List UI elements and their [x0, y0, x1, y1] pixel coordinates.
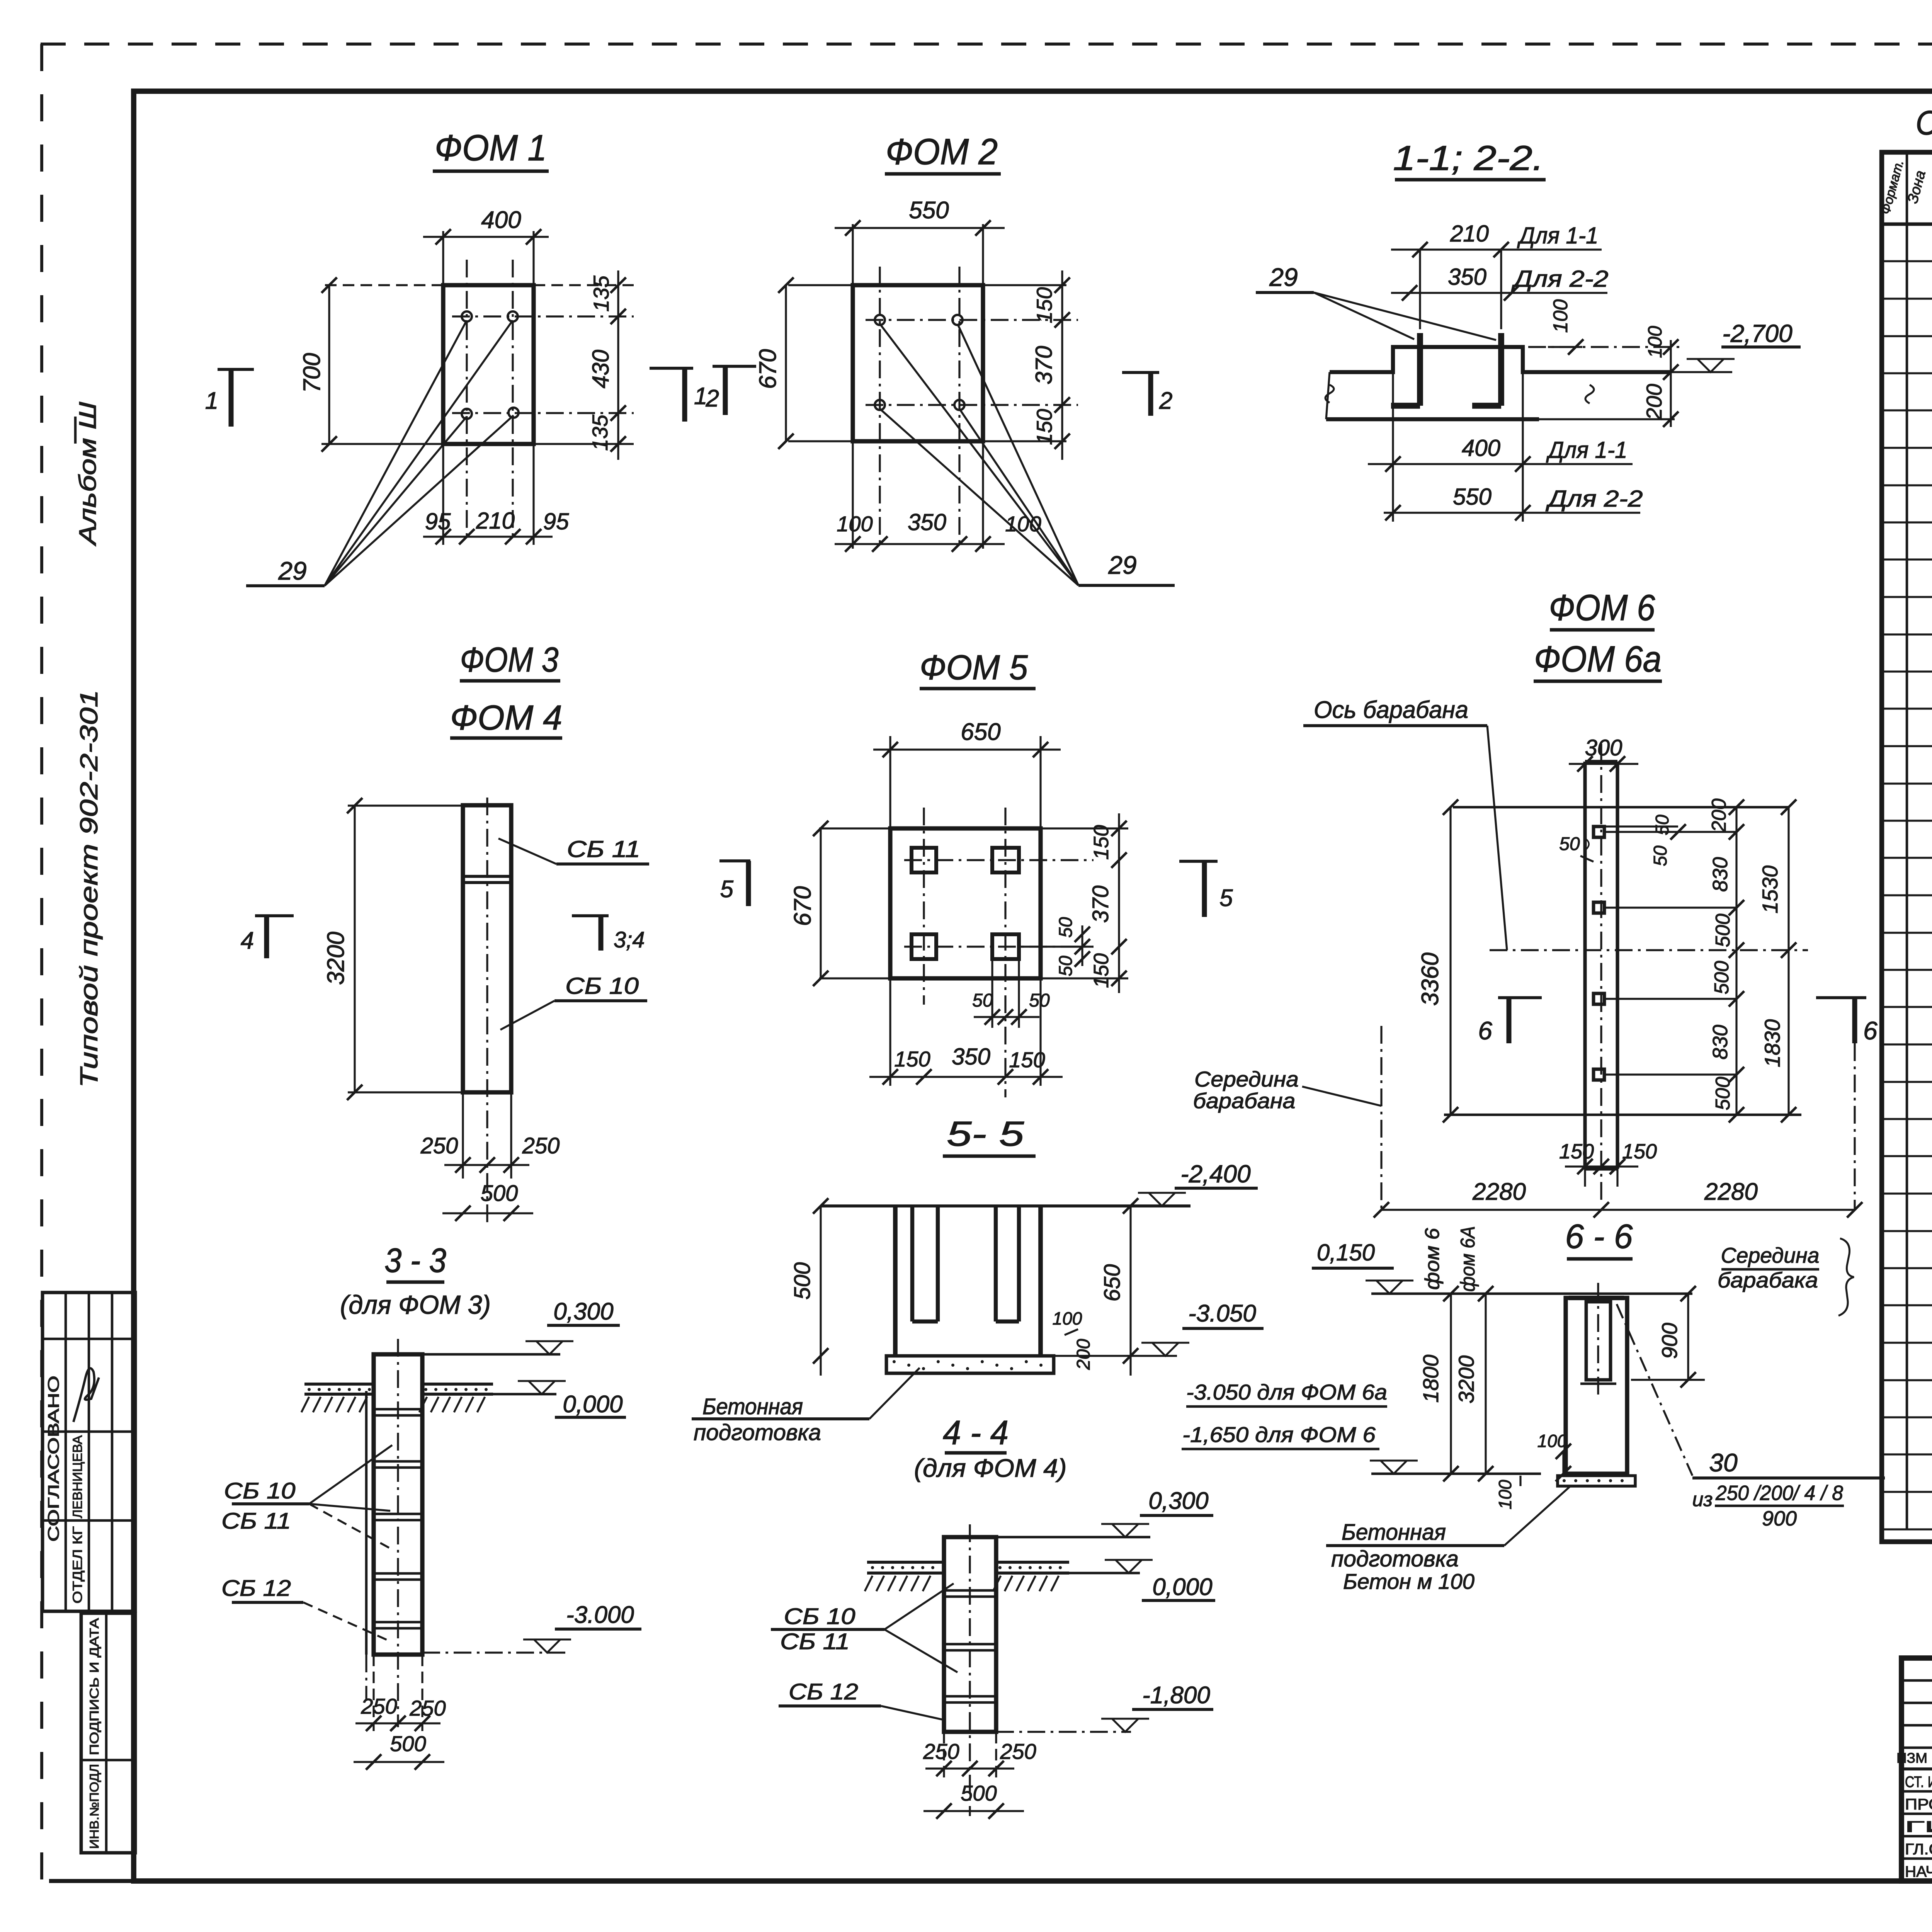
stamp signature scribble — [73, 1368, 99, 1422]
svg-text:барабака: барабака — [1718, 1268, 1818, 1292]
section 3-3 leaders to blocks — [309, 1445, 392, 1504]
svg-text:5- 5: 5- 5 — [947, 1115, 1024, 1153]
svg-text:50: 50 — [972, 990, 993, 1011]
svg-text:210: 210 — [1450, 221, 1489, 247]
svg-text:500: 500 — [961, 1781, 997, 1805]
section 3-3 bottom dims 250/250 — [372, 1655, 374, 1731]
svg-text:-2,400: -2,400 — [1180, 1160, 1251, 1188]
svg-text:Середина: Середина — [1194, 1067, 1299, 1091]
ФОМ 1 dimension 400 (top) — [423, 236, 549, 238]
svg-text:500: 500 — [1711, 961, 1733, 995]
svg-text:0,300: 0,300 — [553, 1298, 613, 1325]
ФОМ 3/4 column outline — [463, 805, 511, 1092]
section 3-3 block joints — [374, 1408, 422, 1411]
ФОМ 6 strip centre axis — [1600, 744, 1602, 1200]
svg-text:ИЗМ: ИЗМ — [1896, 1750, 1927, 1766]
section 1-1/2-2 anchor bolt right — [1498, 333, 1504, 406]
svg-text:150: 150 — [1622, 1140, 1657, 1163]
svg-text:ПРОВЕР: ПРОВЕР — [1905, 1796, 1932, 1813]
svg-text:ФОМ 6: ФОМ 6 — [1549, 587, 1655, 628]
svg-text:350: 350 — [1448, 264, 1486, 290]
ФОМ 5 anchor pockets — [912, 848, 936, 872]
svg-text:ФОМ 2: ФОМ 2 — [886, 131, 998, 172]
svg-text:СБ 10: СБ 10 — [565, 973, 639, 999]
svg-text:СБ 10: СБ 10 — [224, 1478, 296, 1503]
ФОМ 6 anchor tie lines to right dim — [1604, 831, 1736, 833]
svg-text:0,000: 0,000 — [1152, 1574, 1212, 1600]
svg-text:830: 830 — [1709, 1025, 1732, 1060]
section 3-3 ground lines — [304, 1383, 374, 1386]
stamp block СОГЛАСОВАНО: frame — [43, 1293, 135, 1611]
section 3-3 trench edge line — [365, 1391, 368, 1655]
svg-text:400: 400 — [1462, 435, 1500, 461]
section mark 6 (left) — [1498, 996, 1542, 999]
svg-text:Для 1-1: Для 1-1 — [1517, 223, 1599, 248]
stamp block СОГЛАСОВАНО: inner verticals — [65, 1293, 67, 1611]
section 3-3 elevation 0,300 — [422, 1353, 560, 1356]
svg-text:900: 900 — [1762, 1507, 1797, 1530]
section mark 2 (right of ФОМ 2) — [1122, 371, 1159, 374]
svg-text:100: 100 — [1537, 1431, 1567, 1451]
svg-text:210: 210 — [476, 508, 515, 534]
drum axis vertical (right) — [1854, 1043, 1855, 1210]
ФОМ 6 bottom dims 150/150 — [1584, 1169, 1586, 1190]
drum axis vertical (left, середина барабана) — [1380, 1026, 1382, 1210]
ФОМ 6 dimension 3360 (left) — [1449, 807, 1451, 1115]
svg-text:100: 100 — [1549, 299, 1572, 333]
section 6-6 dim line for ФОМ 6 (1800) — [1450, 1294, 1452, 1474]
section 5-5 pocket walls — [910, 1206, 914, 1321]
svg-text:250: 250 — [420, 1133, 458, 1158]
svg-text:фом 6: фом 6 — [1421, 1228, 1444, 1290]
ФОМ 5 pocket axes vertical — [923, 808, 925, 1005]
svg-text:150: 150 — [1032, 409, 1056, 445]
ФОМ 5 pocket axes horizontal — [904, 859, 1094, 861]
svg-text:подготовка: подготовка — [1331, 1546, 1459, 1571]
ФОМ 6 top anchor double line with 50/50 — [1604, 825, 1678, 827]
svg-text:(для ФОМ 4): (для ФОМ 4) — [914, 1454, 1067, 1482]
section 1-1/2-2 break marks — [1325, 385, 1334, 403]
outer dashed border left — [40, 44, 43, 1881]
ФОМ 6 dimension 300 (top) — [1569, 763, 1638, 765]
section mark 1 (left of ФОМ 1) — [218, 368, 254, 371]
section 6-6 dimension 900 (right) — [1631, 1379, 1705, 1381]
svg-text:1800: 1800 — [1418, 1355, 1443, 1403]
svg-text:250: 250 — [361, 1694, 397, 1718]
ФОМ 6 right dim chain 1530/1830 — [1787, 807, 1789, 1115]
svg-text:200: 200 — [1642, 384, 1666, 420]
svg-text:НАЧ ОТД.: НАЧ ОТД. — [1905, 1863, 1932, 1880]
ФОМ 6 dimension 2280/2280 — [1381, 1209, 1855, 1211]
svg-text:370: 370 — [1031, 346, 1057, 384]
svg-text:150: 150 — [894, 1047, 930, 1071]
ФОМ 6 right dim chain 200/830/500/500/830/500 — [1735, 807, 1737, 1115]
svg-text:550: 550 — [909, 197, 949, 224]
ФОМ 1 anchor bolts — [462, 311, 472, 321]
svg-text:3200: 3200 — [323, 932, 349, 985]
ФОМ 1 dimensions 95/210/95 (bottom) — [423, 536, 553, 537]
svg-text:ЛЕВНИЦЕВА: ЛЕВНИЦЕВА — [70, 1435, 85, 1518]
svg-text:СБ 10: СБ 10 — [784, 1604, 855, 1629]
svg-text:1-1; 2-2.: 1-1; 2-2. — [1393, 139, 1544, 178]
section 6-6 column outline — [1566, 1298, 1627, 1474]
ФОМ 2 dimension 550 (top) — [835, 227, 1005, 229]
svg-text:135: 135 — [589, 275, 613, 311]
svg-text:2: 2 — [706, 385, 719, 412]
ФОМ 6 drum axis (horizontal) — [1490, 949, 1808, 951]
svg-text:250: 250 — [409, 1696, 446, 1720]
section 1-1/2-2 dimension 400 Для 1-1 (bottom) — [1392, 372, 1394, 473]
section 5-5 dimension 500 (left) — [820, 1206, 821, 1376]
svg-text:Для 2-2: Для 2-2 — [1511, 266, 1609, 292]
svg-text:300: 300 — [1585, 735, 1622, 760]
section 4-4 bottom dims 250/250 — [943, 1732, 945, 1777]
section 6-6 bottom elevation line and triangle — [1370, 1461, 1418, 1474]
section mark 3;4 — [572, 914, 609, 917]
svg-text:50: 50 — [1029, 990, 1050, 1011]
svg-text:-1,650 для ФОМ 6: -1,650 для ФОМ 6 — [1182, 1422, 1376, 1447]
svg-text:650: 650 — [961, 719, 1000, 745]
svg-text:СТ. ИНЖЕН: СТ. ИНЖЕН — [1905, 1774, 1932, 1791]
svg-text:650: 650 — [1100, 1264, 1125, 1302]
svg-text:СБ 11: СБ 11 — [221, 1509, 291, 1534]
ФОМ 5 dimension 650 (top) — [873, 748, 1061, 750]
svg-text:150: 150 — [1090, 825, 1113, 860]
svg-text:Бетонная: Бетонная — [702, 1394, 803, 1419]
section 4-4 ground hatching — [865, 1576, 872, 1591]
svg-text:(для ФОМ 3): (для ФОМ 3) — [340, 1290, 491, 1320]
section mark 5 (left mark for ФОМ 5) — [719, 859, 750, 862]
ФОМ 6 pit top edge — [1453, 806, 1789, 809]
title block left small rows — [1901, 1679, 1932, 1682]
svg-text:Ось барабана: Ось барабана — [1314, 697, 1468, 723]
svg-text:Спецификация элементов монол: Спецификация элементов монолитной констр… — [1916, 104, 1932, 142]
svg-text:150: 150 — [1032, 287, 1056, 323]
svg-text:100: 100 — [837, 512, 872, 536]
ФОМ 5 small dims 50/50 (below lower right pocket) — [991, 959, 993, 1028]
svg-text:СБ 11: СБ 11 — [567, 836, 640, 862]
svg-text:Середина: Середина — [1721, 1243, 1820, 1267]
section 6-6 pocket centre axis — [1597, 1283, 1599, 1399]
svg-text:барабана: барабана — [1193, 1088, 1296, 1113]
svg-text:150: 150 — [1559, 1140, 1594, 1163]
section mark 4 (left) — [255, 914, 294, 917]
spec table header row line — [1882, 222, 1932, 226]
svg-text:830: 830 — [1709, 857, 1732, 892]
svg-text:3;4: 3;4 — [614, 927, 645, 952]
section 6-6 top elevation line — [1371, 1293, 1692, 1295]
svg-text:50: 50 — [1056, 917, 1076, 938]
svg-text:95: 95 — [543, 509, 569, 534]
section 4-4 elevation -1,800 — [996, 1731, 1131, 1733]
svg-text:СБ 11: СБ 11 — [780, 1629, 850, 1654]
section mark 6 (right) — [1816, 996, 1866, 999]
svg-text:550: 550 — [1453, 484, 1492, 510]
svg-text:250: 250 — [1000, 1739, 1036, 1764]
ФОМ 1 extension lines — [442, 231, 444, 285]
svg-text:100: 100 — [1053, 1308, 1082, 1328]
stamp block ИНВ/ПОДПИСЬ: inner lines — [105, 1613, 108, 1853]
svg-text:-3.000: -3.000 — [566, 1602, 634, 1628]
svg-text:ФОМ 5: ФОМ 5 — [920, 648, 1028, 687]
ФОМ 1 dimension 700 (left) — [328, 285, 330, 444]
svg-text:2: 2 — [1159, 388, 1172, 414]
ФОМ 2 dimensions 150/370/150 (right) — [1061, 270, 1063, 460]
ФОМ 3/4 bottom dim 500 — [442, 1212, 533, 1214]
svg-text:400: 400 — [481, 207, 521, 233]
svg-text:430: 430 — [588, 350, 614, 388]
svg-text:6: 6 — [1478, 1016, 1492, 1045]
svg-text:350: 350 — [908, 509, 946, 535]
svg-text:ФОМ 1: ФОМ 1 — [435, 128, 547, 168]
section 1-1/2-2 bottom edge — [1326, 417, 1539, 421]
spec table column lines — [1906, 152, 1908, 1529]
ФОМ 3/4 bottom dims 250/250 — [462, 1092, 464, 1179]
ФОМ 1 bolt axis vertical lines — [466, 260, 468, 541]
svg-text:ГЛ.СПЕЦ: ГЛ.СПЕЦ — [1905, 1841, 1932, 1858]
section 6-6 top plate marks — [1569, 1296, 1624, 1300]
ФОМ 5 foundation outline — [890, 828, 1041, 978]
svg-text:-1,800: -1,800 — [1142, 1682, 1210, 1709]
ФОМ 2 extension lines — [852, 224, 854, 285]
section marks 1 and 2 (between ФОМ 1 and ФОМ 2) — [650, 367, 693, 370]
spec table outer frame — [1882, 152, 1932, 1542]
svg-text:250 /200/ 4 / 8: 250 /200/ 4 / 8 — [1715, 1481, 1843, 1505]
svg-text:670: 670 — [755, 349, 781, 389]
svg-text:Типовой проект 902-2-301: Типовой проект 902-2-301 — [75, 690, 103, 1088]
svg-text:3200: 3200 — [1454, 1355, 1478, 1404]
svg-text:250: 250 — [522, 1133, 560, 1158]
section 4-4 bottom dim 500 — [923, 1810, 1024, 1812]
section 6-6 dim line for ФОМ 6а (3200) — [1485, 1294, 1486, 1474]
svg-text:-2,700: -2,700 — [1722, 320, 1793, 347]
ФОМ 1 foundation outline — [443, 285, 534, 444]
section 4-4 elevation 0,300 — [996, 1536, 1150, 1539]
section 1-1/2-2 dimension 550 Для 2-2 (bottom) — [1384, 512, 1640, 514]
svg-text:100: 100 — [1644, 326, 1666, 358]
section 3-3 elevation 0,000 — [493, 1393, 556, 1396]
section 5-5 base slab (бетонная подготовка) — [886, 1356, 1054, 1373]
svg-text:0,150: 0,150 — [1317, 1240, 1375, 1265]
title block signature row lines — [1901, 1790, 1932, 1793]
svg-text:СБ 12: СБ 12 — [221, 1576, 291, 1601]
svg-text:5: 5 — [1219, 885, 1233, 912]
spec table row lines — [1882, 260, 1932, 262]
svg-text:100: 100 — [1495, 1480, 1515, 1509]
svg-text:ФОМ 3: ФОМ 3 — [460, 641, 559, 679]
svg-text:150: 150 — [1009, 1048, 1045, 1072]
stamp block СОГЛАСОВАНО: inner horizontals — [43, 1338, 135, 1340]
svg-text:0,300: 0,300 — [1148, 1488, 1208, 1514]
svg-text:Бетон м 100: Бетон м 100 — [1343, 1569, 1475, 1594]
ФОМ 5 extension lines — [889, 736, 891, 828]
svg-text:ГИП: ГИП — [1905, 1818, 1932, 1835]
svg-text:500: 500 — [1712, 914, 1734, 947]
svg-text:670: 670 — [789, 886, 816, 926]
section 6-6 base slab — [1558, 1476, 1635, 1486]
svg-text:1530: 1530 — [1758, 866, 1782, 914]
ФОМ 6 strip foundation outline — [1583, 762, 1587, 1169]
svg-text:29: 29 — [1108, 551, 1136, 579]
svg-text:250: 250 — [923, 1739, 959, 1764]
ФОМ 2 foundation outline — [853, 285, 983, 441]
svg-text:50: 50 — [1056, 956, 1076, 976]
svg-text:2280: 2280 — [1704, 1179, 1758, 1205]
section 1-1/2-2 dimension 210 Для 1-1 — [1391, 248, 1602, 250]
ФОМ 5 dimensions 150/370/150 (right) — [1118, 813, 1120, 993]
section 5-5 outer walls — [893, 1206, 898, 1356]
ФОМ 3/4 block joint lines — [463, 875, 511, 878]
svg-text:500: 500 — [390, 1731, 426, 1756]
svg-text:4: 4 — [241, 927, 254, 954]
title block header row line — [1901, 1767, 1932, 1770]
svg-text:ФОМ 4: ФОМ 4 — [450, 699, 562, 737]
svg-text:ИНВ.№ПОДЛ: ИНВ.№ПОДЛ — [87, 1764, 101, 1849]
svg-text:1: 1 — [205, 388, 218, 414]
svg-text:Для 2-2: Для 2-2 — [1546, 486, 1643, 512]
svg-text:-3.050 для ФОМ 6а: -3.050 для ФОМ 6а — [1186, 1380, 1387, 1404]
ФОМ 2 bolt axis horizontal lines — [866, 319, 1078, 321]
svg-text:370: 370 — [1088, 886, 1113, 923]
svg-text:6: 6 — [1863, 1016, 1878, 1045]
section 5-5 dimension 650 (right) — [1129, 1206, 1131, 1376]
ФОМ 3/4 centre axis — [486, 798, 488, 1223]
svg-text:подготовка: подготовка — [694, 1420, 821, 1445]
svg-text:-3.050: -3.050 — [1188, 1300, 1256, 1327]
svg-text:900: 900 — [1657, 1323, 1682, 1359]
svg-text:50: 50 — [1559, 834, 1580, 854]
svg-text:6 - 6: 6 - 6 — [1565, 1217, 1633, 1255]
bottom trim line — [49, 1879, 134, 1883]
svg-text:4 - 4: 4 - 4 — [943, 1413, 1009, 1452]
leader from Середина барабана label to drum axis — [1302, 1087, 1381, 1106]
stamp block ИНВ/ПОДПИСЬ: frame — [81, 1613, 135, 1853]
svg-text:3360: 3360 — [1417, 952, 1444, 1006]
title block outer frame — [1901, 1658, 1932, 1881]
svg-text:0,000: 0,000 — [563, 1391, 622, 1418]
section 3-3 column outline — [374, 1354, 422, 1655]
section 1-1/2-2 right side dims 100 / 200 — [1528, 346, 1685, 348]
svg-text:фом 6А: фом 6А — [1457, 1226, 1479, 1292]
svg-text:700: 700 — [299, 353, 325, 393]
svg-text:СБ 12: СБ 12 — [789, 1679, 858, 1704]
svg-text:200: 200 — [1708, 799, 1730, 833]
section 1-1/2-2 dimension 350 Для 2-2 — [1391, 292, 1607, 294]
section mark 5 (right) — [1179, 860, 1218, 863]
svg-text:29: 29 — [1269, 263, 1298, 291]
svg-text:50: 50 — [1652, 815, 1673, 835]
svg-text:Бетонная: Бетонная — [1342, 1520, 1446, 1545]
svg-text:150: 150 — [1090, 953, 1113, 988]
svg-text:95: 95 — [425, 509, 451, 534]
ФОМ 5 bottom dims 150/350/150 — [869, 1076, 1063, 1078]
section 1-1/2-2 dimension 100 (bolt protrusion) — [1548, 346, 1582, 348]
section 5-5 pocket bottoms — [912, 1320, 938, 1323]
svg-text:500: 500 — [790, 1262, 815, 1300]
svg-text:3 - 3: 3 - 3 — [384, 1241, 446, 1279]
ФОМ 6 anchor squares — [1594, 827, 1604, 837]
svg-text:350: 350 — [952, 1044, 990, 1070]
section 3-3 elevation -3.000 — [422, 1651, 568, 1653]
section 3-3 bottom dim 500 — [354, 1761, 444, 1763]
svg-text:2280: 2280 — [1472, 1179, 1526, 1205]
ФОМ 5 small dims 50/50 (right of lower pocket) — [1019, 946, 1094, 947]
section 4-4 elevation 0,000 — [1069, 1572, 1140, 1575]
section 6-6 anchor pocket — [1586, 1302, 1611, 1380]
ФОМ 5 dimension 670 (left) — [820, 828, 821, 978]
svg-text:135: 135 — [588, 414, 612, 451]
svg-text:1: 1 — [694, 383, 707, 410]
svg-text:Для 1-1: Для 1-1 — [1546, 437, 1628, 463]
svg-text:5: 5 — [720, 876, 734, 903]
section 4-4 block joints — [944, 1589, 996, 1592]
section 6-6 mesh leader 30 — [1617, 1304, 1692, 1476]
ФОМ 1 bolt axis horizontal lines — [452, 315, 634, 317]
section 4-4 ground lines — [867, 1561, 944, 1564]
svg-text:50: 50 — [1650, 845, 1671, 866]
section 4-4 leaders — [884, 1583, 954, 1629]
ФОМ 1 dimensions 135/430/135 (right) — [617, 270, 619, 460]
ФОМ 2 bolt axis vertical lines — [879, 267, 881, 544]
svg-text:200: 200 — [1073, 1339, 1094, 1370]
section 1-1/2-2 anchor bolt left — [1417, 333, 1423, 406]
svg-text:ФОМ 6а: ФОМ 6а — [1534, 639, 1662, 680]
ФОМ 6 pit bottom edge — [1444, 1114, 1801, 1116]
ФОМ 2 dimension 670 (left) — [785, 285, 787, 441]
ФОМ 2 dimensions 100/350/100 (bottom) — [835, 543, 1005, 545]
ФОМ 3/4 dimension 3200 (left) — [348, 804, 463, 806]
svg-text:29: 29 — [278, 556, 306, 585]
ФОМ 2 anchor bolts — [875, 315, 885, 325]
svg-text:ПОДПИСЬ И ДАТА: ПОДПИСЬ И ДАТА — [87, 1618, 101, 1755]
svg-text:Альбом Ш: Альбом Ш — [75, 401, 101, 547]
svg-text:ОТДЕЛ КГ: ОТДЕЛ КГ — [70, 1526, 85, 1604]
svg-text:СОГЛАСОВАНО: СОГЛАСОВАНО — [45, 1376, 62, 1542]
svg-text:500: 500 — [1712, 1077, 1734, 1111]
section 1-1/2-2 concrete profile — [1330, 347, 1671, 372]
section 4-4 column outline — [944, 1537, 996, 1732]
section 3-3 centre axis — [397, 1339, 399, 1727]
section 5-5 top edge — [821, 1204, 1190, 1207]
section 4-4 centre axis — [969, 1524, 971, 1816]
svg-text:из: из — [1692, 1488, 1713, 1511]
section 3-3 ground hatching — [301, 1397, 309, 1412]
svg-text:30: 30 — [1709, 1448, 1738, 1477]
svg-text:500: 500 — [481, 1181, 518, 1206]
outer dashed border top — [41, 43, 1932, 46]
svg-text:1830: 1830 — [1760, 1019, 1784, 1068]
